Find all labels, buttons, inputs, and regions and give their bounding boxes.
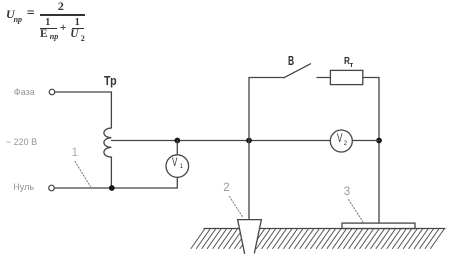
wire phase to transformer xyxy=(55,91,112,93)
wire switch branch up and across xyxy=(249,78,284,141)
label Фаза xyxy=(14,88,35,97)
transformer Тр winding xyxy=(104,92,111,188)
callout 1 leader line xyxy=(75,162,91,187)
node switch branch tap xyxy=(246,138,252,144)
label V1 xyxy=(172,158,177,170)
plate electrode 3 xyxy=(342,223,415,228)
resistor Rт xyxy=(330,70,362,84)
callout 3 label xyxy=(344,187,350,199)
terminal Нуль xyxy=(49,185,55,191)
ground hatching xyxy=(191,229,445,249)
switch B blade xyxy=(284,64,311,78)
junction at transformer bottom xyxy=(109,185,115,191)
rod electrode 2 xyxy=(238,220,262,255)
formula U_pr = 2/(1/E_pr + 1/U_2) xyxy=(0,0,450,1)
node right rail tap xyxy=(376,138,382,144)
ground surface line xyxy=(204,228,445,230)
label В xyxy=(288,55,294,68)
label ~220 В xyxy=(6,138,37,147)
wire middle bus xyxy=(112,140,331,142)
callout 2 label xyxy=(223,183,229,195)
wire rod electrode lead xyxy=(248,141,250,220)
wire V1 top lead xyxy=(176,141,178,155)
voltmeter V1 xyxy=(166,155,189,178)
wire neutral bottom xyxy=(54,187,177,189)
terminal Фаза xyxy=(49,89,55,95)
label Тр xyxy=(104,75,117,88)
callout 2 leader line xyxy=(230,197,244,218)
label Нуль xyxy=(13,183,34,192)
wire switch fixed contact to resistor xyxy=(317,77,330,79)
wire V1 bottom lead xyxy=(176,177,178,188)
label V2 xyxy=(337,134,342,146)
wire right rail xyxy=(378,78,380,223)
callout 1 label xyxy=(72,148,78,160)
voltmeter V2 xyxy=(330,130,352,152)
wire resistor to right rail xyxy=(363,77,379,79)
label Rт xyxy=(344,56,350,67)
wire V2 right lead xyxy=(352,140,379,142)
node V1 tap xyxy=(174,138,180,144)
callout 3 leader line xyxy=(349,200,364,223)
